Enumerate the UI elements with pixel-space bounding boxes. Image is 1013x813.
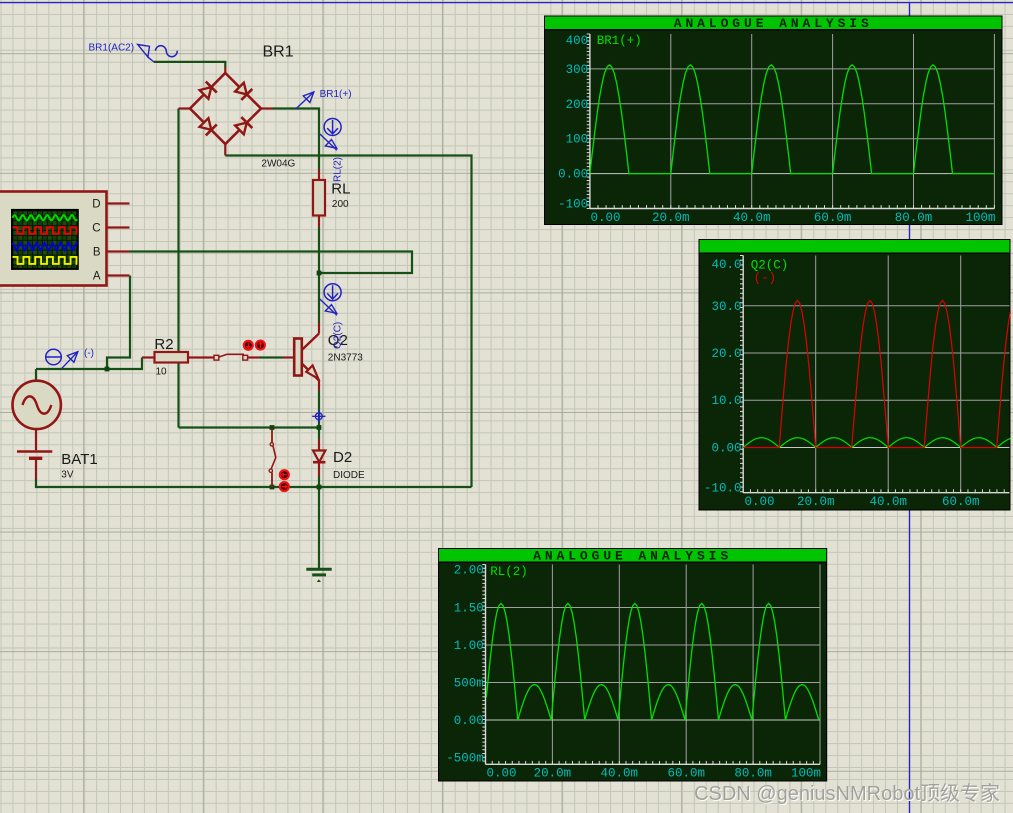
node junction switch top <box>270 425 275 430</box>
svg-text:Q2(C): Q2(C) <box>751 259 789 273</box>
svg-text:60.0m: 60.0m <box>814 211 852 225</box>
svg-text:200: 200 <box>332 199 349 210</box>
svg-text:200: 200 <box>566 98 589 112</box>
svg-text:BR1(AC2): BR1(AC2) <box>89 43 135 54</box>
win1 axes <box>589 34 591 209</box>
wire D2 top <box>318 428 320 440</box>
svg-text:40.0: 40.0 <box>711 258 741 272</box>
current probe RL(2) <box>320 119 342 151</box>
resistor R2 <box>142 352 214 363</box>
svg-text:BR1(+): BR1(+) <box>320 89 352 100</box>
ground symbol <box>306 569 331 582</box>
svg-text:BR1(+): BR1(+) <box>597 34 642 48</box>
page border line vertical <box>909 3 911 813</box>
wire AC source top lead <box>35 369 37 381</box>
wire emitter rail horizontal <box>179 426 320 428</box>
wire scope B channel loop <box>130 252 413 274</box>
waveform (-) red <box>743 301 1010 448</box>
svg-text:C: C <box>92 223 100 235</box>
svg-text:-100: -100 <box>558 198 588 212</box>
wire AC source to R2 <box>36 358 142 370</box>
wire bridge left vertex down left side <box>177 109 179 428</box>
svg-text:ANALOGUE ANALYSIS: ANALOGUE ANALYSIS <box>533 548 732 563</box>
page border line horizontal <box>0 2 1013 4</box>
svg-text:100m: 100m <box>965 211 995 225</box>
svg-text:10.0: 10.0 <box>711 394 741 408</box>
svg-text:3V: 3V <box>61 470 74 481</box>
svg-text:60.0m: 60.0m <box>942 495 980 509</box>
diode D2 <box>313 439 325 476</box>
graph window ANALOGUE ANALYSIS (BR1(+)) <box>544 16 1003 226</box>
svg-text:D2: D2 <box>333 449 352 466</box>
svg-text:400: 400 <box>566 34 589 48</box>
svg-text:80.0m: 80.0m <box>895 211 933 225</box>
switch SPDT vertical <box>269 429 276 487</box>
svg-text:(-): (-) <box>84 348 94 359</box>
node junction switch bottom rail <box>270 485 275 490</box>
wire D2 bottom <box>318 476 320 487</box>
wire R2 to Q2 base (green part) <box>260 356 284 358</box>
svg-text:R2: R2 <box>154 336 173 353</box>
node junction D2 bottom rail <box>317 485 322 490</box>
svg-text:RL(2): RL(2) <box>333 157 344 182</box>
wire bridge bottom to right vertical <box>225 156 471 488</box>
bridge diode B-R <box>235 123 247 135</box>
svg-text:1.50: 1.50 <box>454 602 484 616</box>
svg-text:0.00: 0.00 <box>591 211 621 225</box>
svg-text:30.0: 30.0 <box>711 300 741 314</box>
svg-text:0.00: 0.00 <box>558 168 588 182</box>
svg-text:B: B <box>93 247 101 259</box>
svg-text:RL(2): RL(2) <box>490 565 528 579</box>
voltage probe BR1(+) <box>296 89 352 109</box>
node junction source/A-wire <box>105 367 110 372</box>
svg-text:20.0m: 20.0m <box>797 495 835 509</box>
svg-text:2.00: 2.00 <box>454 564 484 578</box>
bridge diode L-T <box>200 87 212 99</box>
wire bridge right output to RL <box>273 109 320 170</box>
svg-text:A: A <box>93 271 101 283</box>
svg-text:2W04G: 2W04G <box>261 159 295 170</box>
win3 plot grid <box>551 565 553 765</box>
svg-text:0.00: 0.00 <box>487 767 517 781</box>
oscilloscope screen <box>12 210 78 269</box>
svg-text:-10.0: -10.0 <box>704 482 742 496</box>
svg-text:300: 300 <box>566 63 589 77</box>
watermark <box>694 777 1000 806</box>
win3 axes <box>485 565 487 765</box>
svg-text:0.00: 0.00 <box>454 714 484 728</box>
node origin marker (blue crosshair) <box>312 410 325 423</box>
switch (base drive) <box>214 354 260 360</box>
svg-text:0.00: 0.00 <box>745 495 775 509</box>
svg-text:DIODE: DIODE <box>333 470 365 481</box>
bridge rectifier BR1 <box>179 67 273 156</box>
wire bottom ground rail <box>36 479 472 487</box>
win2 axes <box>742 256 744 493</box>
svg-text:500m: 500m <box>454 677 484 691</box>
svg-text:ANALOGUE ANALYSIS: ANALOGUE ANALYSIS <box>674 16 873 31</box>
svg-text:100: 100 <box>566 133 589 147</box>
svg-text:Q2(C): Q2(C) <box>333 322 344 349</box>
svg-text:0.00: 0.00 <box>711 442 741 456</box>
battery BAT1 <box>17 429 52 479</box>
switch state indicator (up) <box>256 341 265 350</box>
resistor RL <box>313 169 325 227</box>
transistor Q2 <box>284 323 320 392</box>
voltage probe BR1(AC2) <box>89 43 178 63</box>
svg-text:-500m: -500m <box>446 752 484 766</box>
svg-text:40.0m: 40.0m <box>601 767 639 781</box>
svg-text:20.0m: 20.0m <box>652 211 690 225</box>
node junction emitter/D2 <box>317 425 322 430</box>
AC source (BAT1 sine source) <box>13 381 61 429</box>
graph window ANALOGUE ANALYSIS (Q2(C)) <box>699 239 1011 511</box>
switch state indicator (right) <box>280 482 289 491</box>
svg-text:1.00: 1.00 <box>454 639 484 653</box>
waveform BR1(+) <box>590 65 995 174</box>
switch state indicator (left) <box>280 470 289 479</box>
wire RL bottom to Q2 collector <box>318 227 320 323</box>
svg-text:20.0m: 20.0m <box>534 767 572 781</box>
win2 plot grid <box>815 256 817 493</box>
wire scope A channel down to source node <box>107 276 130 370</box>
svg-text:D: D <box>92 199 100 211</box>
svg-text:2N3773: 2N3773 <box>328 353 363 364</box>
voltage probe (-) <box>46 348 94 368</box>
current probe Q2(C) <box>320 284 342 316</box>
waveform RL(2) <box>486 604 818 721</box>
waveform Q2(C) green <box>743 438 1010 448</box>
svg-text:20.0: 20.0 <box>711 347 741 361</box>
win1 plot grid <box>670 34 672 209</box>
graph window ANALOGUE ANALYSIS (RL(2)) <box>438 548 827 782</box>
svg-text:40.0m: 40.0m <box>733 211 771 225</box>
svg-text:BAT1: BAT1 <box>61 451 97 468</box>
svg-text:(-): (-) <box>754 272 777 286</box>
svg-text:BR1: BR1 <box>263 44 294 61</box>
bridge diode L-B <box>200 118 212 130</box>
wire AC input to bridge top <box>154 62 225 68</box>
node junction RL/B-loop <box>317 271 322 276</box>
bridge diode T-R <box>235 83 247 95</box>
wire ground stem <box>318 487 320 569</box>
svg-text:10: 10 <box>156 366 168 377</box>
switch state indicator (down) <box>244 341 253 350</box>
oscilloscope body <box>0 192 107 286</box>
svg-text:40.0m: 40.0m <box>869 495 907 509</box>
wire Q2 emitter down <box>318 391 320 428</box>
